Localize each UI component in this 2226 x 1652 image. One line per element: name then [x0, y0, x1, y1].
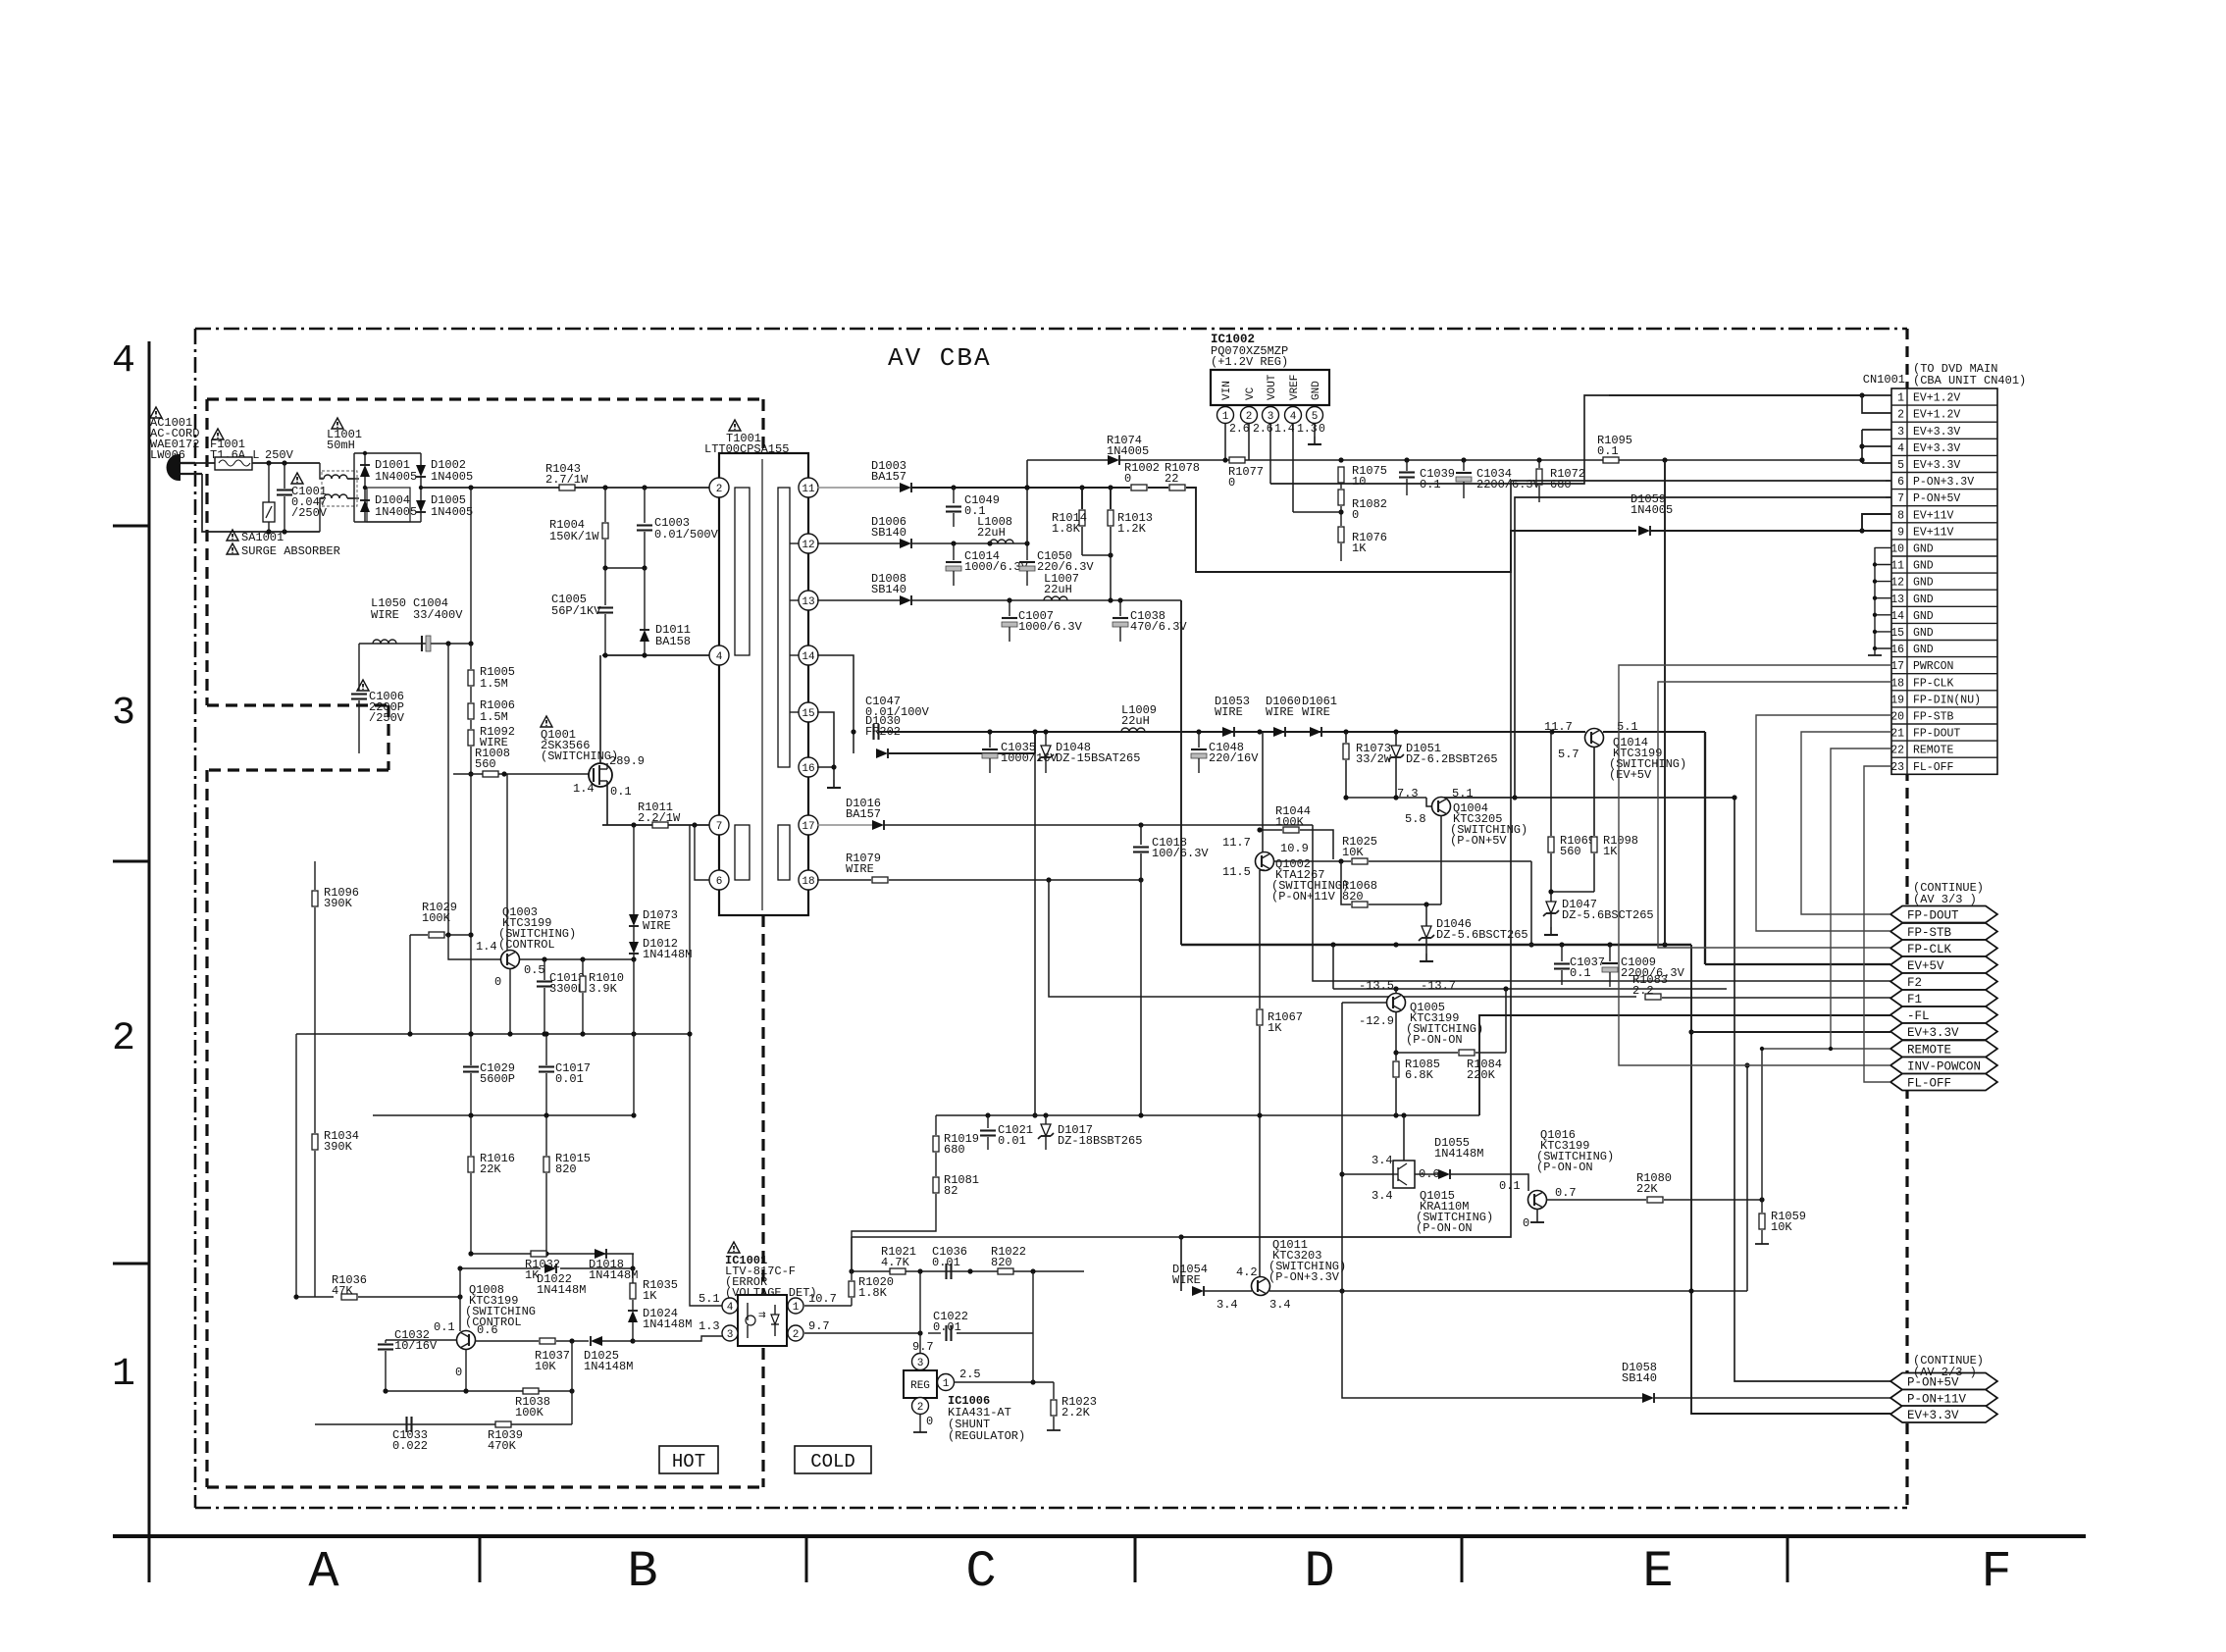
svg-text:DZ-15BSAT265: DZ-15BSAT265 — [1056, 751, 1140, 765]
svg-text:2.5: 2.5 — [959, 1368, 981, 1381]
svg-text:HOT: HOT — [672, 1451, 705, 1472]
wire EV3.3 flag branch — [1688, 945, 1890, 1414]
svg-text:FL-OFF: FL-OFF — [1913, 761, 1954, 774]
svg-text:EV+3.3V: EV+3.3V — [1907, 1026, 1959, 1040]
hot boundary top-right drop — [761, 399, 764, 453]
diode D1054 wire — [1172, 1263, 1252, 1312]
svg-text:A: A — [308, 1543, 339, 1601]
wire VOUT to pin1/2 — [1270, 392, 1891, 484]
svg-text:0: 0 — [1228, 476, 1235, 490]
svg-text:(REGULATOR): (REGULATOR) — [948, 1429, 1025, 1443]
svg-text:12: 12 — [1890, 577, 1904, 590]
diode D1001 — [360, 451, 417, 522]
diode D1011 — [640, 568, 691, 655]
wire lower hot bus — [373, 1034, 637, 1118]
net flag P-ON+5V — [1890, 1373, 1997, 1390]
svg-text:17: 17 — [802, 821, 814, 833]
wire pin14 branch — [817, 655, 856, 753]
svg-text:WIRE: WIRE — [1302, 705, 1330, 719]
svg-text:22K: 22K — [480, 1162, 501, 1176]
row label 3 — [112, 692, 135, 736]
net flag -FL — [1890, 1007, 1997, 1023]
column label C — [965, 1543, 996, 1601]
AV CBA board boundary left — [194, 329, 197, 1508]
svg-text:1K: 1K — [643, 1289, 657, 1303]
svg-text:2: 2 — [112, 1017, 135, 1061]
svg-text:1K: 1K — [1352, 542, 1367, 555]
svg-text:WIRE: WIRE — [371, 608, 399, 622]
diode D1025 — [569, 1336, 635, 1373]
svg-text:(P-ON+5V: (P-ON+5V — [1450, 834, 1507, 848]
diode D1055 — [1434, 1136, 1528, 1191]
capacitor C1006 — [351, 644, 405, 753]
capacitor C1018 — [1133, 825, 1209, 880]
wire 11V to pin8 — [1862, 514, 1891, 531]
capacitor C1022 — [920, 1271, 1033, 1341]
capacitor C1034 — [1456, 460, 1541, 498]
svg-text:EV+3.3V: EV+3.3V — [1907, 1409, 1959, 1422]
svg-text:2: 2 — [716, 484, 723, 495]
svg-text:5600P: 5600P — [480, 1072, 515, 1086]
svg-text:14: 14 — [802, 651, 815, 663]
wire Q1014 collector row — [1444, 732, 1737, 800]
svg-text:0.1: 0.1 — [610, 785, 632, 799]
svg-text:AV CBA: AV CBA — [888, 343, 992, 373]
wire Q1003 emitter — [507, 774, 634, 1034]
resistor R1084 — [1396, 989, 1506, 1082]
svg-text:10K: 10K — [535, 1360, 556, 1373]
net flag F1 — [1890, 990, 1997, 1007]
transformer pin 12 — [799, 534, 818, 553]
inductor L1009 — [1121, 703, 1157, 732]
svg-text:7.3: 7.3 — [1397, 787, 1419, 800]
transformer pin 14 — [799, 645, 818, 665]
wire R1038 row — [383, 1341, 574, 1394]
column label F — [1981, 1543, 2011, 1601]
inductor L1050 wire — [371, 596, 406, 644]
svg-text:680: 680 — [944, 1143, 965, 1157]
hot boundary mid vertical upper — [761, 915, 764, 1293]
svg-text:0.01: 0.01 — [555, 1072, 584, 1086]
svg-text:10K: 10K — [1342, 846, 1364, 859]
svg-text:F: F — [1981, 1543, 2011, 1601]
wire PWRCON to INV-POWCON — [1619, 665, 1891, 1065]
svg-text:VC: VC — [1245, 387, 1257, 400]
bridge rectifier frame — [354, 453, 421, 522]
resistor R1011 — [602, 800, 709, 828]
svg-text:1.8K: 1.8K — [1052, 522, 1081, 536]
svg-text:1000/16V: 1000/16V — [1001, 751, 1058, 765]
svg-text:0: 0 — [1523, 1216, 1529, 1230]
wire 11V rail jog — [1186, 488, 1636, 572]
IC1002 pin 1 — [1217, 405, 1250, 460]
svg-text:DZ-5.6BSCT265: DZ-5.6BSCT265 — [1562, 908, 1654, 922]
diode D1018 — [589, 1249, 638, 1282]
wire R1032 row — [468, 1115, 634, 1257]
resistor R1095 — [1597, 434, 1632, 463]
capacitor C1047 — [865, 695, 930, 740]
svg-text:0.1: 0.1 — [1499, 1179, 1521, 1193]
capacitor C1005 — [551, 568, 613, 655]
svg-text:1N4005: 1N4005 — [431, 505, 473, 519]
svg-text:1: 1 — [112, 1353, 135, 1397]
svg-text:2: 2 — [917, 1402, 924, 1414]
hot boundary bottom — [207, 1485, 763, 1488]
wire R1039 row — [315, 1297, 572, 1424]
svg-text:P-ON+11V: P-ON+11V — [1907, 1393, 1967, 1407]
svg-text:0.1: 0.1 — [1420, 478, 1441, 491]
transistor Q1002 — [1222, 836, 1349, 903]
svg-text:REMOTE: REMOTE — [1913, 745, 1954, 757]
svg-text:WIRE: WIRE — [1172, 1273, 1201, 1287]
connector CN1001 — [1890, 388, 1997, 774]
svg-text:820: 820 — [1342, 890, 1364, 903]
hot boundary notch right — [387, 705, 389, 770]
capacitor C1029 — [463, 1031, 515, 1115]
svg-text:FP-DOUT: FP-DOUT — [1913, 728, 1960, 741]
wire Q1015 out — [1415, 1173, 1438, 1175]
svg-text:1N4148M: 1N4148M — [1434, 1147, 1483, 1161]
svg-text:EV+3.3V: EV+3.3V — [1913, 442, 1960, 455]
svg-text:/250V: /250V — [291, 506, 328, 520]
wire Q1011 drop — [852, 1237, 1181, 1291]
resistor R1079 — [817, 852, 888, 883]
svg-text:BA158: BA158 — [655, 635, 691, 648]
svg-text:BA157: BA157 — [871, 470, 906, 484]
svg-text:D: D — [1304, 1543, 1334, 1601]
hot boundary mid vertical lower — [761, 1348, 764, 1487]
svg-text:GND: GND — [1913, 560, 1934, 573]
svg-text:1N4148M: 1N4148M — [584, 1360, 633, 1373]
svg-text:7: 7 — [716, 821, 723, 833]
resistor R1004 — [549, 488, 608, 568]
wire Q1014 emitter — [1593, 748, 1595, 836]
svg-text:3: 3 — [727, 1329, 734, 1341]
wire fil mid riser — [1140, 880, 1142, 1115]
diode D1058 — [1622, 1361, 1890, 1403]
svg-text:SB140: SB140 — [871, 526, 906, 540]
svg-text:3: 3 — [1897, 426, 1904, 439]
svg-text:3.4: 3.4 — [1269, 1298, 1291, 1312]
svg-text:1.4: 1.4 — [573, 782, 595, 796]
border tick row 1/2 — [113, 1263, 149, 1265]
svg-text:0: 0 — [926, 1415, 933, 1428]
svg-text:5.1: 5.1 — [1452, 787, 1474, 800]
wire 11V rail — [911, 485, 1130, 490]
svg-text:0: 0 — [1352, 508, 1359, 522]
transformer pin 2 — [709, 478, 729, 497]
resistor R1013 — [1108, 488, 1153, 600]
resistor R1006 — [468, 687, 515, 724]
svg-text:VREF: VREF — [1289, 375, 1301, 400]
wire Q1011 collector row — [1269, 1062, 1750, 1293]
transformer primary winding bar — [735, 488, 750, 655]
wire Q1002 base riser — [1528, 861, 1533, 948]
regulator IC1002 — [1211, 333, 1329, 405]
wire AC neutral rail — [202, 474, 320, 535]
wire HV rail — [421, 485, 719, 490]
svg-text:10K: 10K — [1771, 1220, 1792, 1234]
svg-text:E: E — [1642, 1543, 1673, 1601]
transistor Q1014 — [1544, 720, 1686, 782]
capacitor C1048 — [1191, 732, 1259, 773]
svg-text:B: B — [627, 1543, 657, 1601]
transformer core line — [761, 459, 763, 910]
svg-text:SURGE ABSORBER: SURGE ABSORBER — [241, 544, 340, 558]
wire Q1015 top — [1403, 1115, 1405, 1161]
svg-text:82: 82 — [944, 1184, 958, 1198]
svg-text:4: 4 — [727, 1302, 734, 1314]
connector CN1001 title — [1863, 362, 2026, 387]
resistor R1034 — [312, 1129, 359, 1297]
svg-text:22: 22 — [1165, 472, 1178, 486]
diode D1006 — [871, 515, 911, 548]
svg-text:DZ-5.6BSCT265: DZ-5.6BSCT265 — [1436, 928, 1528, 942]
svg-text:6.8K: 6.8K — [1405, 1068, 1434, 1082]
svg-text:FP-DIN(NU): FP-DIN(NU) — [1913, 694, 1981, 706]
inductor L1008 — [977, 515, 1013, 543]
svg-text:6: 6 — [716, 876, 723, 888]
svg-text:390K: 390K — [324, 897, 353, 910]
svg-text:10/16V: 10/16V — [394, 1339, 438, 1353]
wire opto LED drive — [633, 1336, 722, 1341]
resistor R1015 — [544, 1115, 591, 1254]
capacitor C1003 — [637, 488, 719, 568]
transistor Q1003 — [476, 905, 576, 989]
svg-text:GND: GND — [1913, 577, 1934, 590]
net flag FP-DOUT — [1890, 906, 1997, 923]
svg-text:WIRE: WIRE — [643, 919, 671, 933]
wire 11V rail from pin11 — [817, 487, 900, 489]
IC1002 pin 2 — [1241, 407, 1273, 461]
wire REMOTE net — [1760, 749, 1891, 1051]
resistor R1029 — [410, 901, 500, 1034]
svg-text:F1: F1 — [1907, 993, 1922, 1007]
optocoupler pin3 — [699, 1319, 738, 1341]
svg-text:3.4: 3.4 — [1217, 1298, 1238, 1312]
svg-text:CN1001: CN1001 — [1863, 373, 1905, 387]
column label D — [1304, 1543, 1334, 1601]
svg-text:22uH: 22uH — [1121, 714, 1150, 728]
svg-text:0: 0 — [494, 975, 501, 989]
svg-text:DZ-6.2BSBT265: DZ-6.2BSBT265 — [1406, 752, 1498, 766]
svg-text:VOUT: VOUT — [1267, 374, 1278, 400]
svg-text:EV+11V: EV+11V — [1913, 526, 1954, 539]
wire fil rail — [879, 729, 1585, 734]
svg-text:4: 4 — [1897, 442, 1904, 455]
wire Q1016 emitter gnd — [1530, 1209, 1544, 1222]
svg-text:WIRE: WIRE — [1266, 705, 1294, 719]
svg-text:1K: 1K — [1603, 845, 1618, 858]
svg-text:1K: 1K — [1268, 1021, 1282, 1035]
svg-text:0.1: 0.1 — [1597, 444, 1619, 458]
wire F2 line — [884, 822, 1890, 981]
surge absorber SA1001 — [227, 463, 340, 558]
svg-text:/250V: /250V — [369, 711, 405, 725]
wire snubber mid — [602, 565, 647, 570]
capacitor C1038 — [1113, 600, 1187, 642]
svg-text:-13.5: -13.5 — [1359, 979, 1394, 993]
choke L1001 — [320, 418, 362, 532]
svg-text:13: 13 — [1890, 594, 1904, 606]
wire HV midrail drop — [470, 488, 472, 644]
svg-text:22K: 22K — [1636, 1182, 1658, 1196]
resistor R1085 — [1393, 1058, 1440, 1115]
transistor Q1011 — [1236, 1238, 1346, 1312]
capacitor C1014 — [946, 543, 1029, 586]
wire EV3.3 heavy rail — [1181, 942, 1691, 947]
svg-text:(P-ON-ON: (P-ON-ON — [1416, 1221, 1473, 1235]
transistor Q1004 — [1397, 787, 1527, 848]
svg-text:0: 0 — [1319, 423, 1325, 436]
resistor R1098 — [1548, 834, 1638, 895]
capacitor C1007 — [1002, 600, 1083, 642]
wire reg input line — [1027, 459, 1108, 461]
wire snubber to pin4 — [602, 652, 719, 657]
optocoupler pin2 — [788, 1319, 830, 1341]
svg-text:FP-DOUT: FP-DOUT — [1907, 909, 1959, 923]
svg-text:1: 1 — [793, 1302, 800, 1314]
resistor R1037 — [475, 1338, 589, 1373]
svg-text:50mH: 50mH — [327, 439, 355, 452]
wire FL-OFF net — [1864, 766, 1891, 1082]
net flag F2 — [1890, 973, 1997, 990]
capacitor C1050 — [1019, 541, 1094, 586]
svg-text:15: 15 — [1890, 627, 1904, 640]
transformer secondary lower bar — [778, 825, 790, 880]
svg-text:3.9K: 3.9K — [589, 982, 618, 996]
svg-text:1.2K: 1.2K — [1117, 522, 1147, 536]
diode D1073 wire — [629, 825, 678, 933]
svg-text:1N4005: 1N4005 — [1631, 503, 1673, 517]
resistor R1059 — [1755, 1200, 1806, 1244]
svg-text:(P-ON+3.3V: (P-ON+3.3V — [1268, 1270, 1340, 1284]
svg-text:4: 4 — [112, 339, 135, 384]
svg-text:EV+1.2V: EV+1.2V — [1913, 392, 1960, 405]
svg-text:250V: 250V — [265, 448, 294, 462]
svg-text:20: 20 — [1890, 711, 1904, 724]
svg-text:3: 3 — [1268, 411, 1274, 423]
ruler tick A/B — [479, 1536, 482, 1582]
svg-text:0: 0 — [455, 1366, 462, 1379]
svg-text:14: 14 — [1890, 610, 1904, 623]
diode D1003 — [871, 459, 911, 492]
row label 1 — [112, 1353, 135, 1397]
svg-text:-12.9: -12.9 — [1359, 1014, 1394, 1028]
inductor L1007 — [1044, 572, 1079, 600]
diode D1059 — [1631, 492, 1673, 536]
wire FP-STB net — [1756, 715, 1891, 931]
AV CBA board boundary bottom — [195, 1507, 1907, 1510]
wire P-ON11 branch — [1342, 1291, 1642, 1398]
svg-text:5: 5 — [1897, 459, 1904, 472]
resistor R1014 — [1052, 488, 1113, 558]
svg-text:BA157: BA157 — [846, 807, 881, 821]
optocoupler IC1001 — [725, 1242, 817, 1346]
resistor R1008 — [453, 747, 589, 777]
net flag FP-CLK — [1890, 940, 1997, 956]
border ruler bottom — [113, 1534, 2086, 1538]
svg-text:0.1: 0.1 — [1570, 966, 1591, 980]
svg-text:EV+3.3V: EV+3.3V — [1913, 426, 1960, 439]
svg-text:0.022: 0.022 — [392, 1439, 428, 1453]
svg-text:3: 3 — [917, 1358, 924, 1369]
svg-text:(AV 3/3 ): (AV 3/3 ) — [1913, 893, 1977, 906]
resistor R1022 — [991, 1245, 1026, 1274]
resistor R1073 — [1343, 732, 1392, 798]
svg-text:13: 13 — [802, 596, 814, 608]
svg-text:16: 16 — [802, 763, 814, 775]
diode D1012 — [629, 926, 692, 962]
svg-text:11: 11 — [802, 484, 815, 495]
net flag EV+3.3V bottom — [1890, 1406, 1997, 1422]
svg-text:220/16V: 220/16V — [1209, 751, 1259, 765]
diode D1024 — [628, 1307, 692, 1341]
resistor R1075 — [1338, 464, 1387, 489]
svg-text:16: 16 — [1890, 644, 1904, 656]
wire EV3.3 to pins riser — [1664, 460, 1666, 945]
svg-text:18: 18 — [802, 876, 814, 888]
net flag REMOTE — [1890, 1041, 1997, 1058]
svg-text:9: 9 — [1897, 526, 1904, 539]
border tick row 2/3 — [113, 860, 149, 863]
wire fb row — [849, 1268, 1084, 1273]
wire opto pin4 up — [687, 1031, 722, 1306]
transformer pin 11 — [799, 478, 818, 497]
svg-text:2: 2 — [793, 1329, 800, 1341]
svg-text:2.2/1W: 2.2/1W — [638, 811, 681, 825]
transformer secondary winding bar — [778, 488, 802, 767]
svg-text:150K/1W: 150K/1W — [549, 530, 599, 543]
svg-text:5.1: 5.1 — [699, 1292, 720, 1306]
svg-text:0.5: 0.5 — [524, 963, 545, 977]
COLD label box — [795, 1446, 871, 1473]
svg-text:560: 560 — [1560, 845, 1581, 858]
wire -FL to flag — [1479, 1015, 1890, 1115]
svg-text:1: 1 — [943, 1378, 950, 1390]
svg-text:(EV+5V: (EV+5V — [1609, 768, 1652, 782]
resistor R1032 — [525, 1251, 560, 1282]
resistor R1039 — [488, 1421, 523, 1453]
svg-text:GND: GND — [1913, 610, 1934, 623]
svg-text:470/6.3V: 470/6.3V — [1130, 620, 1187, 634]
wire 3.3V rail — [911, 541, 1027, 545]
svg-text:23: 23 — [1890, 761, 1904, 774]
border frame left edge — [148, 341, 151, 1582]
capacitor C1017 — [539, 1031, 591, 1115]
column label A — [308, 1543, 339, 1601]
svg-text:17: 17 — [1890, 660, 1904, 673]
resistor R1043 — [545, 462, 589, 490]
transformer pin 18 — [799, 870, 818, 890]
hot boundary left lower — [205, 770, 208, 1487]
svg-text:GND: GND — [1913, 594, 1934, 606]
svg-text:EV+1.2V: EV+1.2V — [1913, 409, 1960, 422]
IC1002 pin 5 — [1307, 407, 1326, 445]
capacitor C1033 — [392, 1417, 428, 1453]
wire EV+5V rail — [1705, 732, 1890, 964]
diode D1004 — [360, 493, 417, 519]
svg-text:FP-CLK: FP-CLK — [1913, 677, 1954, 690]
svg-text:-FL: -FL — [1907, 1009, 1930, 1023]
svg-text:P-ON+5V: P-ON+5V — [1913, 492, 1960, 505]
svg-text:100/6.3V: 100/6.3V — [1152, 847, 1209, 860]
wire AC live to fuse — [195, 462, 215, 464]
svg-text:100K: 100K — [422, 911, 451, 925]
svg-text:11.5: 11.5 — [1222, 865, 1251, 879]
continue AV 2/3 label — [1913, 1354, 1984, 1379]
svg-text:1N4148M: 1N4148M — [537, 1283, 586, 1297]
